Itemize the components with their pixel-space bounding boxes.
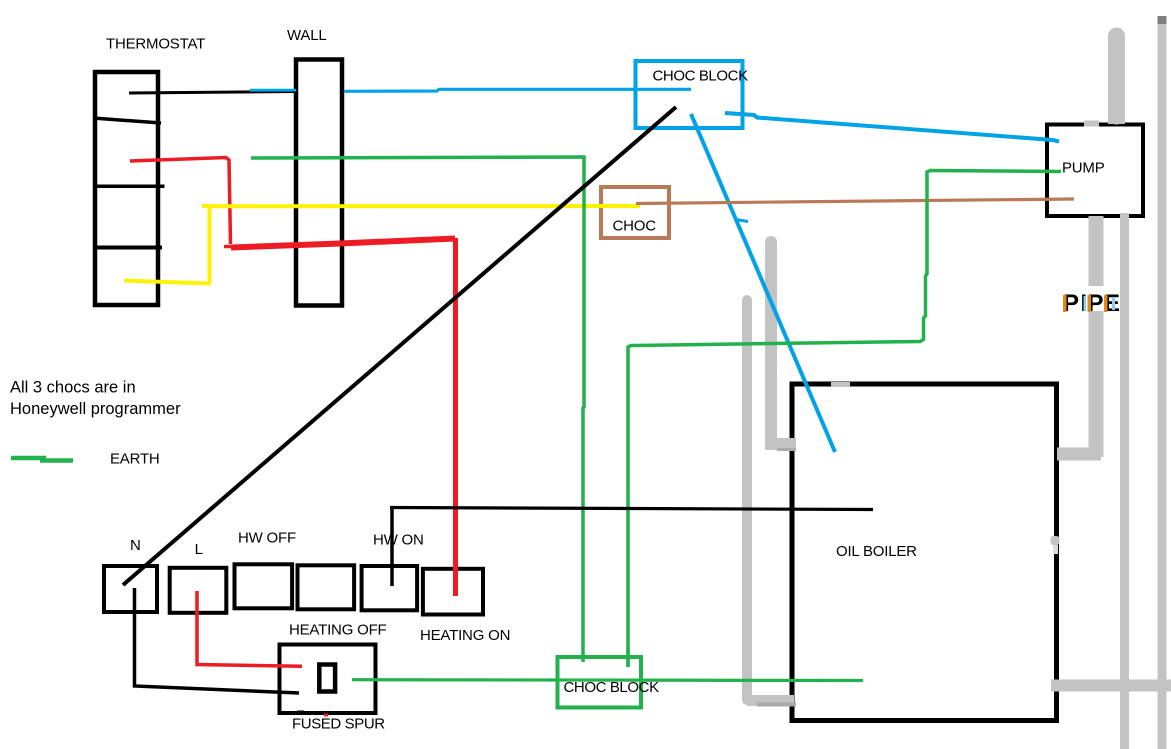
pipe A into boiler left upper [765,242,796,450]
svg-text:CHOC BLOCK: CHOC BLOCK [564,679,660,696]
wire green earth fused spur to boiler [352,678,863,682]
pump [1047,125,1143,217]
wire green stub into choc block CB3 [626,647,630,667]
wire black live thermostat to wall [129,92,295,94]
pipe C below pump to boiler right [1057,216,1101,457]
thermostat box [93,72,165,305]
yellow corner nub [202,204,212,208]
programmer terminal N [104,566,157,612]
pipe label PIPE [1063,290,1120,317]
programmer terminal spare [298,565,355,609]
pipe stub on boiler right edge [1051,536,1060,554]
black diagonal choc block to N terminal [123,107,676,585]
pipe D below pump full height [1120,213,1129,749]
svg-text:FUSED SPUR: FUSED SPUR [292,716,385,733]
choc CB2 (brown) [601,187,669,238]
svg-text:HEATING ON: HEATING ON [420,627,510,644]
wire red thick to heating on [231,238,456,596]
svg-text:N: N [130,537,141,554]
choc block CB1 (blue) [636,61,743,128]
choc block CB3 (green) [558,657,642,708]
pipe bottom horizontal from boiler [1051,680,1171,692]
wire brown choc to pump [636,199,1074,204]
programmer terminal L [170,568,227,613]
svg-text:All 3 chocs are in: All 3 chocs are in [10,379,136,397]
wire red live L to fused spur [197,591,302,666]
pipe above pump [1108,36,1125,124]
blue diagonal choc block to boiler [691,114,835,452]
svg-text:HW ON: HW ON [373,532,424,549]
programmer terminal HW ON [362,566,418,610]
programmer terminal HEATING ON [423,569,483,615]
wire blue overlap before wall [250,89,296,92]
pipe smudge on pump top edge [1084,121,1099,127]
fuse [319,665,335,692]
programmer terminal HW OFF [235,564,293,608]
svg-text:CHOC BLOCK: CHOC BLOCK [653,68,749,85]
wire green earth wall to lower choc block [251,157,584,662]
black tick on fused spur bottom [297,711,304,714]
wire green earth boiler to pump [628,171,1061,668]
svg-text:WALL: WALL [287,27,327,44]
pipe B into boiler left lower [747,300,796,705]
svg-text:HEATING OFF: HEATING OFF [289,622,387,639]
wire red foot tick [224,245,241,249]
pipe far right full height [1158,16,1167,749]
wall [296,60,342,306]
wire blue choc block to pump [725,113,1059,142]
earth legend line [11,458,73,461]
svg-text:Honeywell programmer: Honeywell programmer [10,400,181,418]
svg-text:EARTH: EARTH [110,451,160,468]
blue tick on diagonal [736,220,748,222]
red mark on fused spur bottom [324,714,328,717]
wire blue wall to choc block [344,89,691,91]
fused spur box [280,645,376,714]
svg-text:L: L [195,541,203,558]
wire black neutral N to fused spur [135,588,300,693]
wire black HW ON to boiler [390,507,873,586]
pipe gray smear on boiler top [831,382,850,387]
oil boiler [792,384,1057,721]
svg-text:THERMOSTAT: THERMOSTAT [106,36,205,53]
wire red thermostat down [130,158,231,245]
wire yellow thermostat to choc [124,206,640,284]
svg-text:PUMP: PUMP [1062,160,1105,177]
svg-text:CHOC: CHOC [613,218,657,235]
svg-text:HW OFF: HW OFF [238,530,296,547]
svg-text:OIL BOILER: OIL BOILER [836,543,917,560]
